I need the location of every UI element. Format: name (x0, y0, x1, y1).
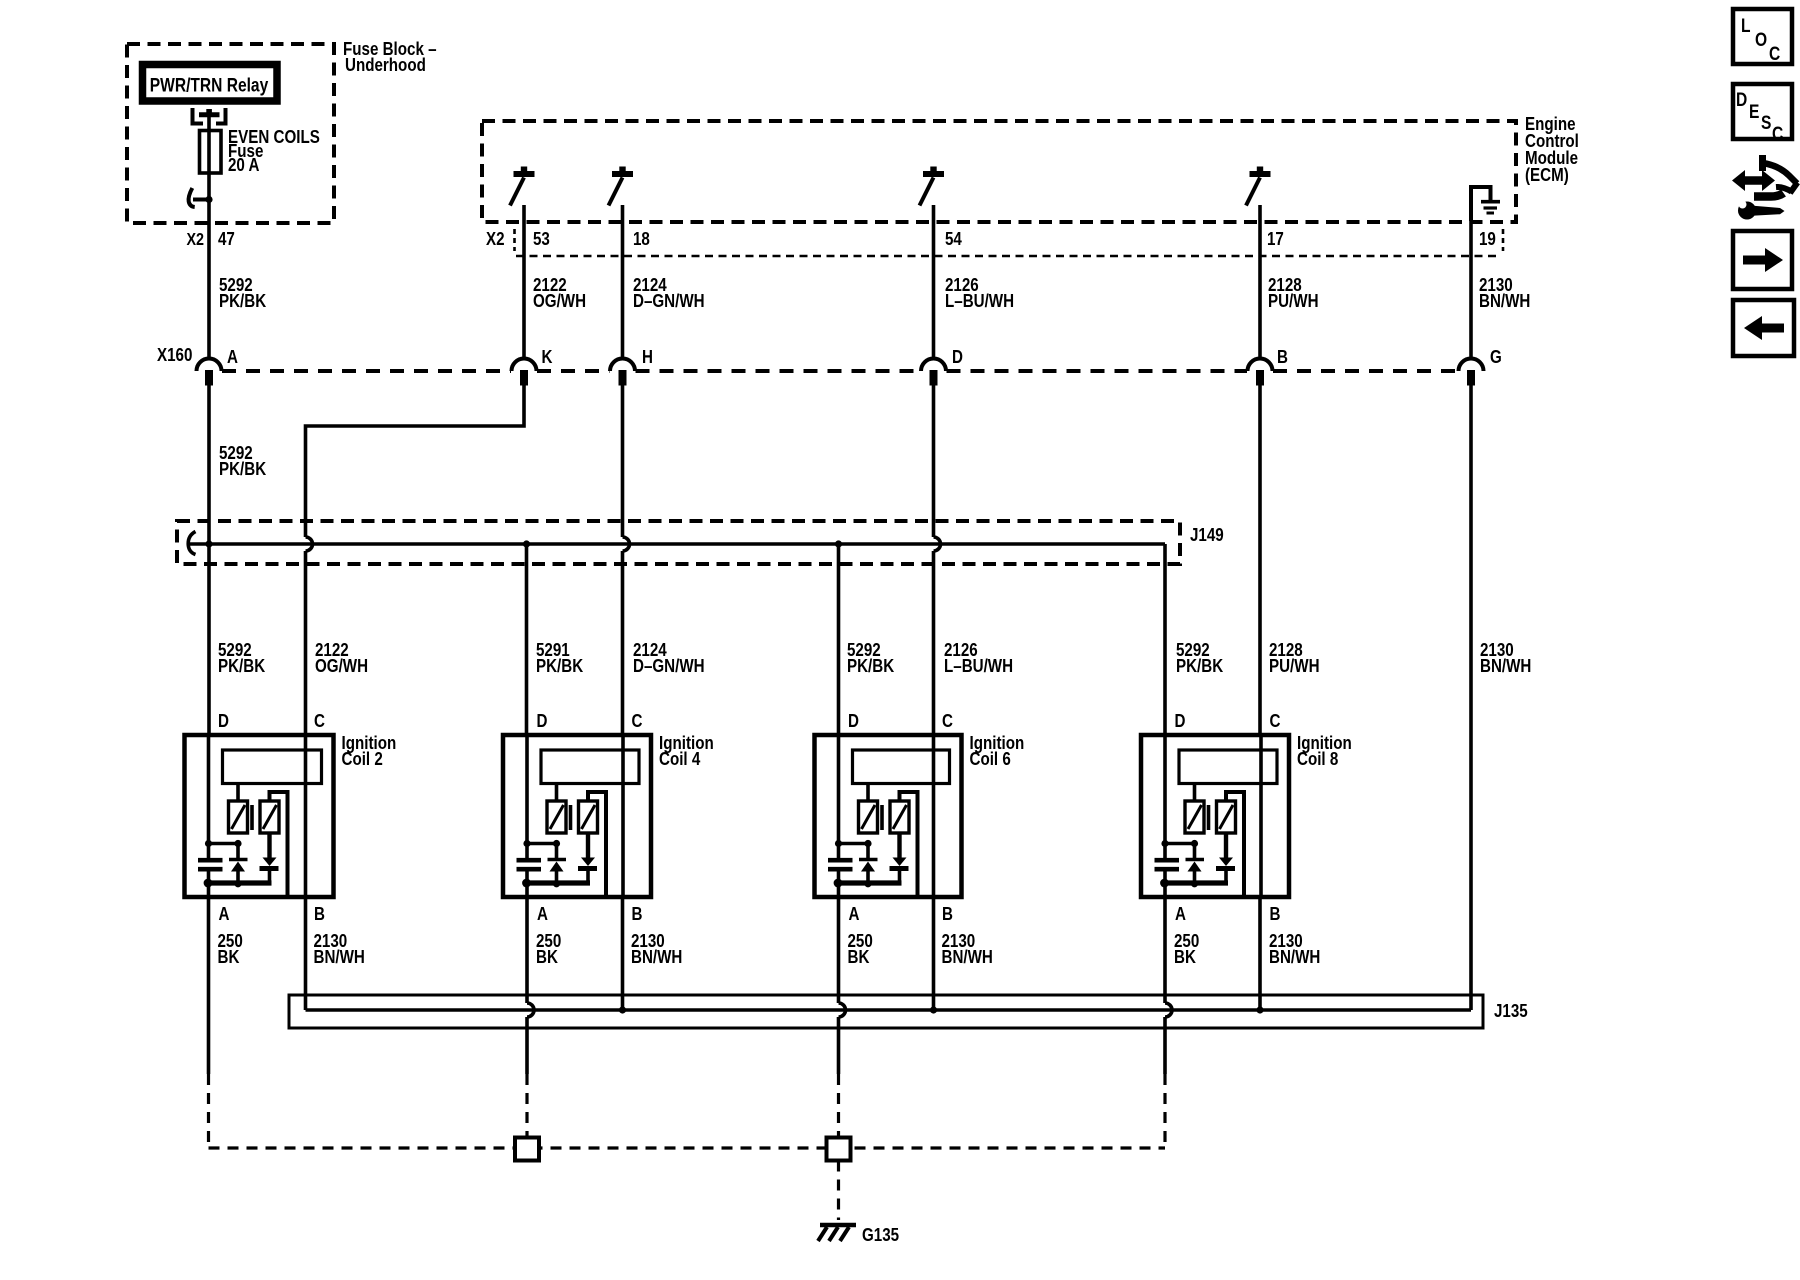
coil 8 junction node (1161, 840, 1198, 847)
coil 2 secondary return to case (270, 792, 288, 895)
svg-text:A: A (227, 347, 238, 368)
wire 2126 down to coil6 C (932, 551, 936, 735)
coil 6 D wire inside (837, 735, 841, 844)
coil 2 wire labels 250 BK (218, 931, 243, 968)
svg-text:C: C (1769, 43, 1781, 65)
wire 5292 J149 to coil8 D (1163, 544, 1167, 735)
icon button LOC (1733, 9, 1792, 64)
svg-text:X2: X2 (486, 229, 505, 250)
wire 5292 J149 to coil2 D (207, 544, 211, 735)
wire 250 BK coil4 A down (525, 883, 529, 1003)
svg-text:PK/BK: PK/BK (847, 656, 895, 677)
ignition coil 2 box (185, 735, 334, 897)
wire 2124 X160-H down (621, 386, 625, 538)
svg-text:BK: BK (1174, 947, 1197, 968)
svg-text:C: C (314, 711, 325, 732)
connector X160 pin B (1248, 347, 1288, 386)
ECM output U1 driver pin 18 (609, 167, 634, 206)
wire 2130 coil4 B to J135 (621, 897, 625, 1010)
wire 250 coil6 below J135 (837, 1017, 841, 1074)
connector X160 pin A (196, 347, 237, 386)
fuse block label (343, 39, 437, 76)
coil 6 secondary return to case (900, 792, 918, 895)
svg-text:PK/BK: PK/BK (536, 656, 584, 677)
svg-text:D: D (848, 711, 859, 732)
ground net dashed coil2 A (207, 1074, 210, 1148)
svg-text:53: 53 (533, 229, 550, 250)
svg-text:Coil 8: Coil 8 (1297, 749, 1338, 770)
svg-text:S: S (1761, 112, 1771, 134)
ignition coil 8 box (1141, 735, 1289, 897)
relay K1 PWR/TRN Relay box (143, 65, 278, 102)
svg-text:BN/WH: BN/WH (1479, 291, 1530, 312)
wire 250 BK coil8 A down (1163, 883, 1167, 1003)
J135 junction coil6 B (930, 1006, 937, 1013)
svg-text:47: 47 (218, 229, 235, 250)
splice J135 box (289, 995, 1483, 1028)
coil 6 connector bar (853, 750, 950, 784)
coil 8 capacitor (1155, 844, 1180, 884)
svg-text:X2: X2 (186, 231, 204, 250)
wire 2124 hop over J149 bus (623, 537, 630, 551)
svg-text:A: A (219, 904, 230, 925)
coil 8 C-B wire through box (1259, 735, 1263, 897)
wire 5291 J149 to coil4 D (525, 544, 529, 735)
wire label 2126 L–BU/WH top (945, 275, 1014, 312)
wire 2128 X160-B down to coil8 C (1258, 386, 1262, 736)
wire 5292 J149 to coil6 D (837, 544, 841, 735)
wire label 2128 PU/WH row2 (1269, 640, 1320, 677)
svg-text:PU/WH: PU/WH (1268, 291, 1319, 312)
coil 6 label (970, 733, 1025, 770)
svg-text:54: 54 (945, 229, 962, 250)
ECM output U1 driver pin 17 (1246, 167, 1271, 206)
svg-text:D: D (1175, 711, 1186, 732)
wire 2124 down to coil4 C (621, 551, 625, 735)
coil 8 zener diode up (1186, 844, 1205, 884)
svg-text:OG/WH: OG/WH (315, 656, 368, 677)
svg-text:B: B (1270, 904, 1281, 925)
ground net dashed horizontal (209, 1146, 1166, 1149)
coil 6 wire labels 2130 BN/WH (942, 931, 993, 968)
J135 bus wire 2130 (306, 1008, 1472, 1012)
coil 4 connector bar (541, 750, 639, 784)
icon button back arrow (1733, 300, 1794, 356)
svg-text:X160: X160 (157, 345, 192, 366)
coil 8 ground bus (1160, 879, 1228, 888)
connector X160 dashed line (222, 369, 1458, 373)
switch contact symbol (189, 188, 213, 207)
coil 2 connector bar (223, 750, 322, 784)
ground symbol G135 (818, 1225, 856, 1241)
ground splice square coil4 (515, 1138, 539, 1161)
coil 4 wire labels 2130 BN/WH (631, 931, 682, 968)
ground net dashed to G135 (837, 1161, 840, 1221)
wire fuse to switch (207, 173, 211, 200)
ignition coil 6 box (815, 735, 962, 897)
svg-text:(ECM): (ECM) (1525, 165, 1569, 186)
wire 2128 ECM to X160 (1258, 205, 1262, 359)
ground net dashed coil8 A (1163, 1074, 1166, 1148)
coil 8 D wire inside (1163, 735, 1167, 844)
svg-text:PK/BK: PK/BK (1176, 656, 1224, 677)
wire label 5292 PK/BK mid (219, 443, 267, 480)
svg-text:B: B (942, 904, 953, 925)
ECM internal ground pin 19 (1471, 187, 1500, 221)
svg-text:D: D (952, 347, 963, 368)
coil 4 core bar (569, 805, 573, 830)
J149 junction coil4 feed (523, 540, 530, 547)
coil 8 connector bar (1179, 750, 1277, 784)
svg-text:20 A: 20 A (228, 155, 259, 176)
pin label X2 47 fuse block (186, 229, 234, 250)
svg-text:E: E (1749, 101, 1759, 123)
icon pan hotlink (1732, 155, 1798, 220)
svg-text:D–GN/WH: D–GN/WH (633, 656, 705, 677)
svg-text:19: 19 (1479, 229, 1496, 250)
svg-text:OG/WH: OG/WH (533, 291, 586, 312)
coil 4 C-B wire through box (621, 735, 625, 897)
coil 6 core bar (880, 805, 884, 830)
coil 2 ground bus (204, 879, 272, 888)
svg-text:Coil 2: Coil 2 (342, 749, 383, 770)
wire 250 coil6 hop over J135 bus (839, 1003, 846, 1017)
coil 4 label (659, 733, 714, 770)
coil 8 label (1297, 733, 1352, 770)
svg-text:Coil 6: Coil 6 (970, 749, 1011, 770)
wire 2122 hop over J149 bus (306, 537, 313, 551)
coil 2 core bar (250, 805, 254, 830)
wire label 5292 PK/BK row2 (847, 640, 895, 677)
wire 2130 X160-G down to J135 (1469, 386, 1473, 1011)
coil 8 core bar (1207, 805, 1211, 830)
ECM label (1525, 114, 1579, 186)
svg-text:PK/BK: PK/BK (219, 291, 267, 312)
coil 6 secondary winding (890, 801, 909, 833)
ECM output U1 driver pin 54 (920, 167, 945, 206)
wire 2122 ECM to X160 (522, 205, 526, 359)
coil 2 wire labels 2130 BN/WH (314, 931, 365, 968)
svg-text:C: C (1270, 711, 1281, 732)
coil 8 wire labels 2130 BN/WH (1269, 931, 1320, 968)
coil 4 junction node (523, 840, 560, 847)
coil 4 ground bus (522, 879, 590, 888)
wire 2126 hop over J149 bus (934, 537, 941, 551)
svg-text:A: A (849, 904, 860, 925)
coil 6 C-B wire through box (932, 735, 936, 897)
svg-text:K: K (542, 347, 554, 368)
svg-text:D: D (218, 711, 229, 732)
svg-text:L: L (1741, 15, 1751, 37)
wire 2124 ECM to X160 (621, 205, 625, 359)
svg-text:D: D (537, 711, 548, 732)
svg-text:L–BU/WH: L–BU/WH (944, 656, 1013, 677)
svg-text:A: A (537, 904, 548, 925)
svg-text:J149: J149 (1190, 525, 1224, 546)
icon button forward arrow (1733, 231, 1792, 289)
coil 4 D wire inside (525, 735, 529, 844)
svg-text:BK: BK (848, 947, 871, 968)
coil 2 capacitor (198, 844, 223, 884)
coil 6 zener diode up (859, 844, 878, 884)
svg-text:BK: BK (536, 947, 559, 968)
svg-text:J135: J135 (1494, 1001, 1528, 1022)
svg-text:D–GN/WH: D–GN/WH (633, 291, 705, 312)
svg-text:G: G (1490, 347, 1502, 368)
svg-text:PK/BK: PK/BK (219, 459, 267, 480)
wire 250 coil4 below J135 (525, 1017, 529, 1074)
svg-text:PWR/TRN Relay: PWR/TRN Relay (150, 74, 269, 96)
wire 2122 down to coil2 C (304, 551, 308, 735)
wire 2130 ECM pin19 to X160-G (1469, 221, 1473, 359)
coil 2 label (342, 733, 397, 770)
coil 2 secondary winding (260, 801, 279, 833)
coil 4 pin letters (537, 711, 643, 925)
coil 6 ground bus (834, 879, 902, 888)
wire label 5292 PK/BK top (219, 275, 267, 312)
svg-text:BN/WH: BN/WH (1480, 656, 1531, 677)
wire 250 BK coil6 A down (837, 883, 841, 1003)
fuse block underhood dashed box (127, 44, 334, 223)
svg-text:Underhood: Underhood (345, 55, 426, 76)
coil 6 diode down (890, 833, 909, 882)
J135 junction coil8 B (1256, 1006, 1263, 1013)
coil 8 secondary winding (1217, 801, 1236, 833)
connector X160 pin G (1459, 347, 1502, 386)
ground net dashed coil4 A (525, 1074, 528, 1138)
svg-text:A: A (1175, 904, 1186, 925)
coil 2 D wire inside (207, 735, 211, 844)
wire label 2124 D–GN/WH row2 (633, 640, 705, 677)
coil 6 primary winding (859, 784, 878, 834)
fuse EVEN COILS 20A (200, 127, 320, 176)
svg-text:L–BU/WH: L–BU/WH (945, 291, 1014, 312)
ground splice square coil6 (827, 1138, 851, 1161)
splice pack J149 dashed box (177, 521, 1180, 564)
coil 8 secondary return to case (1226, 792, 1244, 895)
coil 8 primary winding (1185, 784, 1204, 834)
wire relay to fuse (207, 114, 211, 131)
svg-text:B: B (314, 904, 325, 925)
wire label 2128 PU/WH top (1268, 275, 1319, 312)
svg-text:D: D (1736, 89, 1747, 111)
svg-text:Coil 4: Coil 4 (659, 749, 701, 770)
svg-text:17: 17 (1267, 229, 1284, 250)
coil 2 junction node (205, 840, 242, 847)
svg-text:H: H (642, 347, 653, 368)
coil 4 primary winding (547, 784, 566, 834)
coil 6 capacitor (828, 844, 853, 884)
wire switch to connector X2-47 (207, 200, 211, 360)
coil 4 secondary winding (579, 801, 598, 833)
wire label 2130 BN/WH top (1479, 275, 1530, 312)
wire label 5292 PK/BK row2 (1176, 640, 1224, 677)
coil 6 pin letters (848, 711, 953, 925)
coil 8 pin letters (1175, 711, 1281, 925)
svg-text:PU/WH: PU/WH (1269, 656, 1320, 677)
engine control module ECM dashed box (482, 121, 1516, 222)
svg-text:BK: BK (218, 947, 241, 968)
connector X160 pin K (512, 347, 554, 386)
coil 4 zener diode up (548, 844, 567, 884)
wire 5292 X160-A down to J149 (207, 385, 211, 544)
wire 250 coil8 below J135 (1163, 1017, 1167, 1074)
coil 4 diode down (578, 833, 597, 882)
wire 2126 ECM to X160 (932, 205, 936, 359)
coil 8 diode down (1216, 833, 1235, 882)
coil 2 primary winding (229, 784, 248, 834)
ECM pin row dashed line (516, 255, 1500, 258)
wire label 5291 PK/BK row2 (536, 640, 584, 677)
svg-text:PK/BK: PK/BK (218, 656, 266, 677)
coil 4 secondary return to case (588, 792, 606, 895)
svg-text:18: 18 (633, 229, 650, 250)
svg-text:BN/WH: BN/WH (314, 947, 365, 968)
wire 2130 coil8 B to J135 (1258, 897, 1262, 1010)
svg-text:BN/WH: BN/WH (1269, 947, 1320, 968)
wire label 2122 OG/WH top (533, 275, 586, 312)
coil 4 wire labels 250 BK (536, 931, 561, 968)
svg-text:B: B (1277, 347, 1288, 368)
wire label 2130 BN/WH row2 (1480, 640, 1531, 677)
J149 terminal hook (188, 532, 195, 555)
coil 6 wire labels 250 BK (848, 931, 873, 968)
svg-text:O: O (1755, 29, 1767, 51)
wire 250 coil8 hop over J135 bus (1165, 1003, 1172, 1017)
wire 2130 coil2 B to J135 bus start (304, 897, 308, 1010)
wire 2130 coil6 B to J135 (932, 897, 936, 1010)
wire 2126 X160-D down (932, 386, 936, 538)
wire 250 BK coil2 A down (207, 883, 211, 1074)
svg-text:BN/WH: BN/WH (942, 947, 993, 968)
J135 junction coil4 B (619, 1006, 626, 1013)
svg-text:G135: G135 (862, 1225, 899, 1246)
connector X160 pin H (610, 347, 653, 386)
X2 connector separator right (1502, 229, 1505, 251)
coil 2 zener diode up (229, 844, 248, 884)
wire label 5292 PK/BK row2 (218, 640, 266, 677)
coil 2 pin letters (218, 711, 325, 925)
J149 junction coil6 feed (835, 540, 842, 547)
svg-text:C: C (1772, 123, 1784, 145)
coil 4 capacitor (517, 844, 542, 884)
svg-text:C: C (942, 711, 953, 732)
coil 8 wire labels 250 BK (1174, 931, 1199, 968)
svg-text:C: C (632, 711, 643, 732)
wire 2122 jog from K to coil2 column (306, 386, 525, 538)
coil 2 C-B wire through box (304, 735, 308, 897)
ignition coil 4 box (503, 735, 651, 897)
icon button DESC (1733, 84, 1792, 144)
X2 connector separator left (513, 229, 516, 251)
coil 6 junction node (835, 840, 872, 847)
J149 junction at coil2 feed (205, 540, 212, 547)
wire label 2126 L–BU/WH row2 (944, 640, 1013, 677)
wire 250 coil4 hop over J135 bus (527, 1003, 534, 1017)
svg-text:B: B (632, 904, 643, 925)
coil 2 diode down (260, 833, 279, 882)
ground net dashed coil6 A (837, 1074, 840, 1138)
relay contact symbol (193, 108, 226, 124)
connector X160 pin D (921, 347, 963, 386)
wire label 2122 OG/WH row2 (315, 640, 368, 677)
wire label 2124 D–GN/WH top (633, 275, 705, 312)
ECM output U1 driver pin 53 (510, 167, 535, 206)
svg-text:BN/WH: BN/WH (631, 947, 682, 968)
J149 bus wire 5292 (190, 542, 1165, 546)
